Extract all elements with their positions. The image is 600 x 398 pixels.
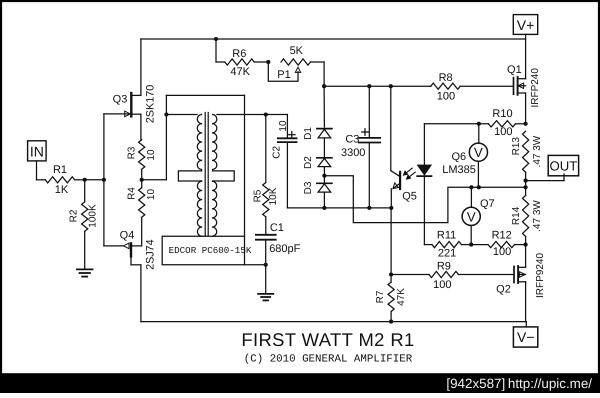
wire xyxy=(390,208,392,282)
svg-text:C1: C1 xyxy=(270,222,284,234)
svg-text:R1: R1 xyxy=(53,164,67,176)
svg-text:.47 3W: .47 3W xyxy=(532,200,543,232)
node P1 left xyxy=(266,60,270,64)
resistor R14 xyxy=(525,181,527,196)
svg-text:Q4: Q4 xyxy=(120,229,135,241)
diode D1 xyxy=(317,128,332,130)
svg-text:IN: IN xyxy=(30,143,44,159)
wire xyxy=(423,124,425,165)
port OUT xyxy=(548,155,578,175)
transistor Q5 xyxy=(390,86,392,171)
node bias junction xyxy=(524,185,528,189)
wire xyxy=(166,94,244,96)
node input xyxy=(83,178,87,182)
wire xyxy=(423,176,425,245)
svg-text:LM385: LM385 xyxy=(442,164,476,176)
svg-text:10: 10 xyxy=(146,149,157,161)
potentiometer P1 xyxy=(281,59,310,65)
resistor R2 xyxy=(84,180,86,202)
svg-text:C3: C3 xyxy=(345,133,359,145)
transformer T1 primary tap xyxy=(178,171,201,181)
port V- xyxy=(513,327,537,347)
node C3 top xyxy=(367,84,371,88)
wire xyxy=(244,95,246,264)
transistor Q2 xyxy=(513,266,515,282)
resistor R7 xyxy=(388,282,394,311)
wire xyxy=(142,179,167,181)
svg-text:R7: R7 xyxy=(375,290,386,303)
node Q6 top xyxy=(477,122,481,126)
transistor Q4 xyxy=(131,245,141,247)
node OUT xyxy=(524,179,528,183)
resistor R13 xyxy=(523,131,529,172)
wire xyxy=(141,321,526,323)
svg-text:100K: 100K xyxy=(88,204,99,228)
transistor Q1 xyxy=(513,78,515,95)
wire xyxy=(103,114,105,246)
wire xyxy=(140,39,142,95)
resistor R5 xyxy=(265,115,267,183)
node Q1 source xyxy=(524,122,528,126)
resistor R6 xyxy=(216,61,225,63)
transistor Q3 xyxy=(131,94,141,96)
reference Q6 xyxy=(478,124,480,143)
svg-text:IRFP9240: IRFP9240 xyxy=(535,253,546,298)
svg-text:R12: R12 xyxy=(492,229,512,241)
svg-text:[942x587] http://upic.me/: [942x587] http://upic.me/ xyxy=(446,376,592,391)
wire xyxy=(324,176,525,223)
svg-text:Q1: Q1 xyxy=(507,64,522,76)
wire xyxy=(391,274,429,276)
svg-text:R14: R14 xyxy=(511,206,522,225)
svg-text:EDCOR PC600-15K: EDCOR PC600-15K xyxy=(169,245,252,256)
node C1 gnd xyxy=(264,263,268,267)
transformer T1 box xyxy=(162,236,266,265)
ground xyxy=(77,268,93,270)
svg-text:680pF: 680pF xyxy=(269,243,300,255)
node Q7 top xyxy=(469,185,473,189)
svg-text:.47 3W: .47 3W xyxy=(532,135,543,167)
svg-text:Q2: Q2 xyxy=(496,283,511,295)
svg-text:R8: R8 xyxy=(439,72,453,84)
meter Q7 xyxy=(470,187,472,207)
diode D3 xyxy=(323,176,325,184)
svg-text:V: V xyxy=(474,145,483,160)
transformer T1 primary winding xyxy=(197,115,201,237)
node output col R12 xyxy=(524,243,528,247)
svg-text:R2: R2 xyxy=(69,209,80,222)
svg-text:3300: 3300 xyxy=(341,147,365,159)
wire xyxy=(165,95,167,179)
svg-text:IRFP240: IRFP240 xyxy=(530,68,541,108)
node C3 bottom xyxy=(367,206,371,210)
capacitor C1 xyxy=(256,234,276,236)
wire xyxy=(323,86,325,127)
svg-text:R4: R4 xyxy=(126,187,137,200)
svg-text:R11: R11 xyxy=(437,230,456,242)
svg-text:47K: 47K xyxy=(230,66,250,78)
svg-text:R13: R13 xyxy=(511,137,522,156)
node primary top xyxy=(164,112,168,116)
node Q5 emitter xyxy=(389,206,393,210)
resistor R12 xyxy=(488,242,514,248)
svg-text:P1: P1 xyxy=(277,69,290,81)
svg-text:V−: V− xyxy=(517,329,535,345)
svg-text:OUT: OUT xyxy=(549,158,577,173)
svg-text:10: 10 xyxy=(146,189,157,201)
wire xyxy=(471,244,488,246)
resistor R9 xyxy=(429,271,458,277)
resistor R4 xyxy=(141,180,143,188)
port V+ xyxy=(513,15,537,35)
node Q7 bottom xyxy=(469,243,473,247)
resistor R11 xyxy=(424,244,432,246)
svg-text:D3: D3 xyxy=(303,181,314,194)
node R7 bottom xyxy=(389,320,393,324)
resistor R1 xyxy=(45,177,74,183)
node R5 top xyxy=(264,112,268,116)
svg-text:FIRST WATT M2 R1: FIRST WATT M2 R1 xyxy=(241,329,414,350)
svg-text:R3: R3 xyxy=(126,146,137,159)
svg-text:100: 100 xyxy=(433,279,451,291)
svg-text:D2: D2 xyxy=(303,156,314,169)
svg-text:10: 10 xyxy=(278,120,289,132)
svg-text:10K: 10K xyxy=(268,187,279,205)
svg-text:Q6: Q6 xyxy=(451,151,466,163)
svg-text:2SJ74: 2SJ74 xyxy=(144,239,156,270)
node V+ rail junction xyxy=(214,37,218,41)
node Q5 emitter col xyxy=(389,272,393,276)
wire xyxy=(215,39,217,62)
svg-text:47K: 47K xyxy=(396,288,407,306)
node D3 bottom xyxy=(322,206,326,210)
diode D2 xyxy=(317,157,332,159)
wire xyxy=(424,123,488,125)
node gate bus xyxy=(102,178,106,182)
wire xyxy=(525,322,527,327)
svg-text:V+: V+ xyxy=(517,17,535,33)
wire xyxy=(85,179,104,181)
svg-text:Q3: Q3 xyxy=(113,94,128,106)
svg-text:C2: C2 xyxy=(272,145,283,158)
svg-text:221: 221 xyxy=(438,247,456,259)
opto light arrows xyxy=(405,168,412,174)
node Q6 bottom xyxy=(477,185,481,189)
svg-text:R5: R5 xyxy=(253,189,264,202)
wire xyxy=(526,180,564,182)
svg-text:2SK170: 2SK170 xyxy=(144,85,156,123)
wire xyxy=(141,38,526,40)
svg-text:R6: R6 xyxy=(232,48,246,60)
transformer T1 secondary tap xyxy=(213,171,235,181)
svg-text:R9: R9 xyxy=(437,260,451,272)
node mid rail left xyxy=(322,84,326,88)
port IN xyxy=(28,141,46,161)
wire xyxy=(36,161,38,180)
svg-text:100: 100 xyxy=(493,246,511,258)
wire xyxy=(287,207,391,209)
wire xyxy=(217,114,288,116)
svg-text:(C) 2010 GENERAL AMPLIFIER: (C) 2010 GENERAL AMPLIFIER xyxy=(244,354,413,366)
node D2-D3 xyxy=(322,174,326,178)
svg-text:100: 100 xyxy=(437,91,455,103)
svg-text:Q5: Q5 xyxy=(402,191,417,203)
svg-text:D1: D1 xyxy=(303,127,314,140)
svg-text:R10: R10 xyxy=(492,108,512,120)
svg-text:Q7: Q7 xyxy=(480,198,495,210)
resistor R3 xyxy=(139,140,145,169)
capacitor C2 xyxy=(286,115,288,139)
wire xyxy=(166,114,197,116)
resistor R10 xyxy=(488,121,515,127)
wire xyxy=(323,62,325,86)
transformer T1 secondary winding xyxy=(213,115,217,237)
node follower out xyxy=(140,178,144,182)
caption bar xyxy=(0,373,600,393)
resistor R8 xyxy=(431,83,460,89)
svg-text:1K: 1K xyxy=(55,184,69,196)
LED D4 xyxy=(417,165,431,175)
svg-text:100: 100 xyxy=(494,126,512,138)
svg-text:V: V xyxy=(467,209,476,224)
wire xyxy=(324,85,431,87)
svg-text:5K: 5K xyxy=(290,45,304,57)
node Q5 collector rail xyxy=(389,84,393,88)
transformer T1 core xyxy=(204,113,206,237)
ground xyxy=(265,265,267,294)
capacitor C3 xyxy=(368,86,370,138)
